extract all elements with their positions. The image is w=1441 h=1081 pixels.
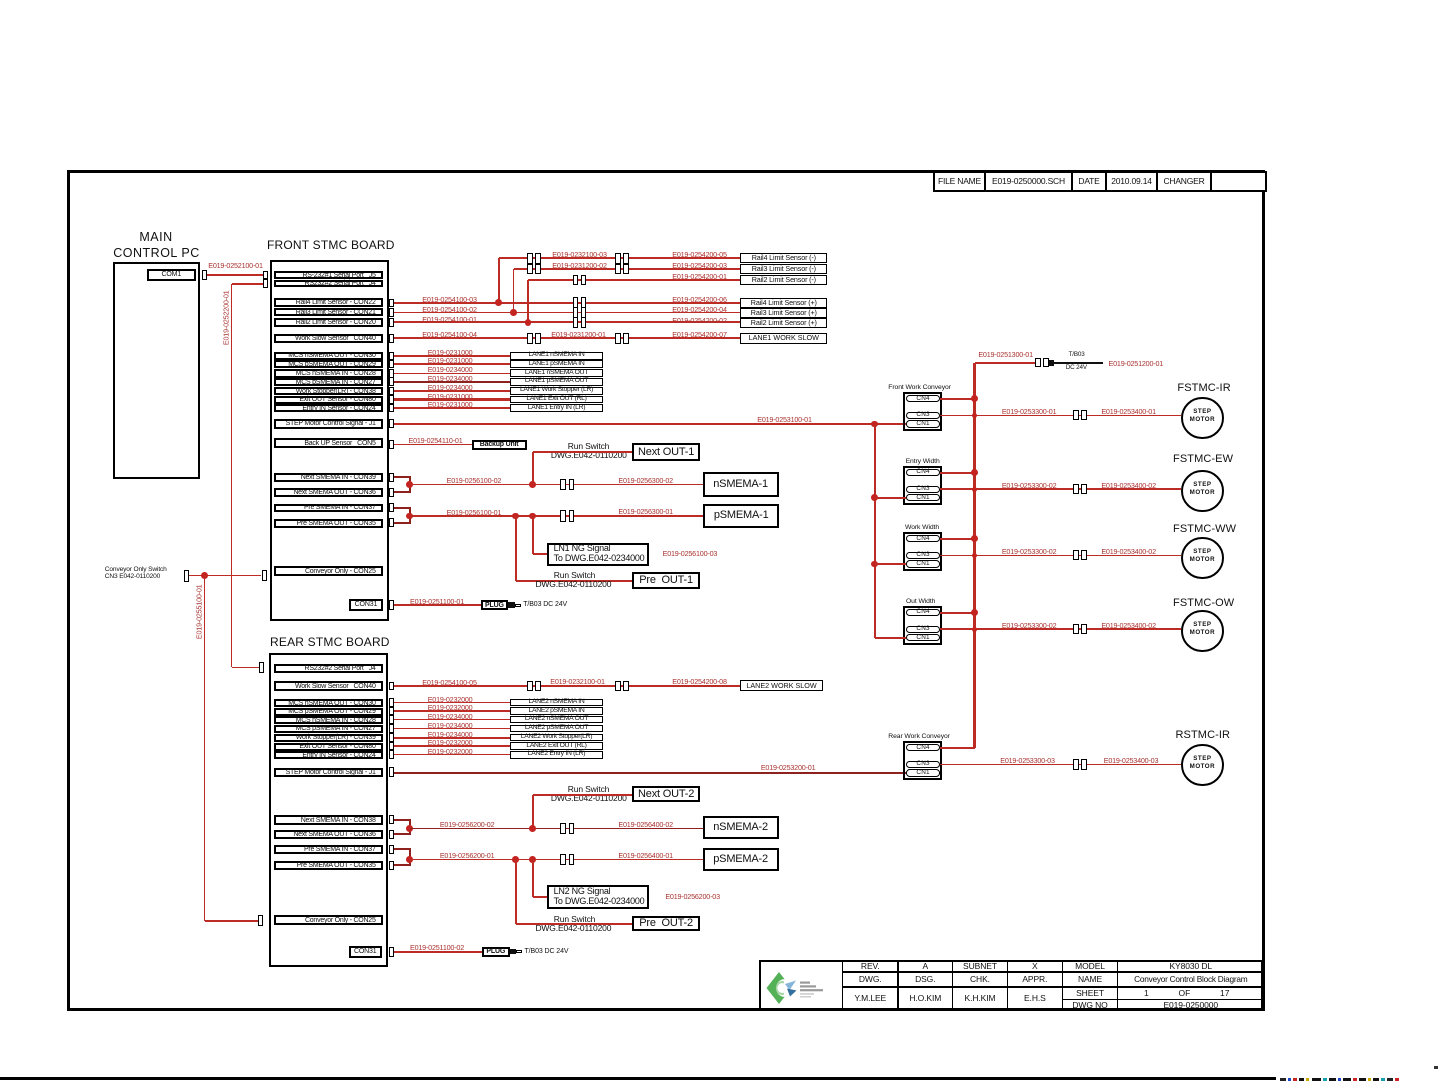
label run switch next1 (566, 442, 611, 451)
net label E019-0256200-03 (665, 893, 721, 901)
stub CON39 (394, 476, 411, 478)
wire entry CN1 (875, 497, 906, 499)
backup unit box (472, 440, 527, 450)
box pSMEMA-2 (703, 848, 779, 871)
wire E019-0232000 lane2 row 6 (394, 754, 510, 756)
connector pair on rail2 plus (573, 317, 579, 328)
net label E019-0234000 lane2 row 2 (427, 713, 474, 721)
label T/B03 DC 24V front (523, 601, 567, 608)
junction to ln1 (529, 513, 536, 520)
wire E019-0234000 lane2 row 4 (394, 737, 510, 739)
title block cell X (1007, 960, 1064, 973)
connector front smema row 1 (389, 360, 394, 369)
main control pc box (113, 262, 200, 479)
vertical bus E019-0255100-01 (204, 576, 206, 921)
title block cell APPR. (1007, 971, 1064, 988)
net label E019-0251200-01 (1107, 360, 1164, 368)
bracket pre smema (409, 508, 411, 523)
net label E019-0234000 lane2 row 4 (427, 731, 474, 739)
connector pair rear slow 2 (615, 681, 621, 692)
net label E019-0254200-01 (671, 273, 728, 281)
title block cell MODEL (1062, 960, 1119, 973)
front board row Back UP Sensor CON5 (274, 438, 383, 448)
label conveyor only switch line2 (105, 573, 160, 580)
label T/B03 DC 24V rear (525, 948, 569, 955)
io box LANE1 pSMEMA OUT (510, 378, 603, 386)
label REAR STMC BOARD (270, 636, 390, 649)
title block cell Y.M.LEE (842, 986, 899, 1011)
title block cell CHK. (952, 971, 1008, 988)
io box LANE2 nSMEMA IN (510, 699, 603, 707)
front board row MCS nSMEMA IN - CON28 (274, 369, 383, 377)
rear board row MCS nSMEMA OUT - CON30 (274, 699, 383, 707)
wire E019-0256200-01 (410, 859, 704, 861)
connector front CON36 (389, 488, 394, 497)
net label E019-0253300-02 out (1002, 622, 1057, 630)
title block cell SHEET (1062, 986, 1119, 1000)
front board row Rail3 Limit Sensor - CON21 (274, 308, 383, 317)
wire rear conveyor CN3 to motor (940, 764, 1181, 766)
io box LANE1 pSMEMA IN (510, 360, 603, 368)
junction out CN4 bus (971, 609, 978, 616)
connector rear CON38 (389, 815, 394, 824)
left vertical CN1 bus (874, 424, 876, 638)
junction entry CN1 left (871, 494, 878, 501)
net label E019-0254110-01 (407, 437, 464, 445)
title block cell Conveyor Control Block Diagram (1117, 971, 1265, 988)
net label E019-0253300-02 entry (1002, 482, 1057, 490)
sensor Rail3 Limit Sensor (-) (740, 264, 827, 275)
box Next OUT-2 (632, 786, 701, 802)
label Front Work Conveyor (888, 384, 951, 391)
wire work CN4 to bus (940, 538, 975, 540)
net label E019-0253300-02 work (1002, 548, 1057, 556)
bracket pre smema rear (409, 849, 411, 865)
entry width port CN4 (906, 469, 940, 476)
junction work CN4 bus (971, 535, 978, 542)
net label E019-0254100-05 (421, 679, 478, 687)
stub CON37 rear (394, 848, 411, 850)
net label E019-0232000 lane2 row 6 (427, 748, 474, 756)
connector CON21 at board edge (389, 308, 394, 317)
rear board row STEP Motor Control Signal - J1 (274, 768, 383, 777)
connector front smema row 2 (389, 369, 394, 378)
wire E019-0254100-01 (394, 321, 741, 323)
net label E019-0234000 row 2 (427, 366, 474, 374)
title header cell blank (1210, 171, 1267, 192)
wire E019-0231000 lane1 row 1 (394, 363, 510, 365)
junction entry CN4 bus (971, 469, 978, 476)
stub CON37 (394, 507, 411, 509)
junction conveyor only (201, 572, 208, 579)
label MOTOR of FSTMC-WW (1182, 557, 1222, 564)
front board row MCS pSMEMA OUT - CON29 (274, 360, 383, 368)
wire into LN2 box (533, 896, 547, 898)
connector pair FSTMC-EW (1073, 484, 1079, 494)
wire entry CN3 to motor (940, 488, 1181, 490)
wire E019-0251100-01 (394, 604, 481, 606)
wire E019-0256100-02 (410, 484, 703, 486)
junction next out-1 (529, 481, 536, 488)
net label E019-0231000 row 6 (427, 401, 474, 409)
front board row Work Stopper(LR) - CON38 (274, 387, 383, 395)
rear board row Next SMEMA OUT - CON36 (274, 830, 383, 840)
net label E019-0251100-01 (409, 598, 465, 606)
wire E019-0256100-01 (410, 515, 704, 517)
title header cell E019-0250000.SCH (984, 171, 1073, 192)
connector rear CON40 (389, 682, 394, 691)
wire E019-0234000 lane1 row 2 (394, 373, 510, 375)
stub CON36 rear (394, 833, 411, 835)
plug box rear (482, 947, 510, 957)
box nSMEMA-1 (703, 472, 779, 497)
company logo (759, 960, 843, 1010)
net label E019-0254100-04 (421, 331, 478, 339)
label MOTOR of FSTMC-IR (1182, 417, 1222, 424)
wire FRONT J4 to left bus (232, 283, 264, 285)
net label E019-0231000 row 0 (427, 349, 474, 357)
label STEP of RSTMC-IR (1182, 756, 1222, 763)
connector rear smema row 1 (389, 707, 394, 716)
branch vertical rail4 minus (498, 258, 500, 303)
front board row STEP Motor Control Signal - J1 (274, 419, 383, 428)
step motor FSTMC-OW (1181, 610, 1223, 652)
wire to LN2 box (532, 860, 534, 897)
rear board row Pre SMEMA OUT - CON35 (274, 861, 383, 870)
junction front CN3 bus (972, 413, 977, 418)
rear work conveyor port CN3 (906, 761, 940, 768)
stub CON38 (394, 819, 411, 821)
wire E019-0254110-01 (394, 444, 472, 446)
label MOTOR of FSTMC-OW (1182, 630, 1222, 637)
label conveyor only switch line1 (105, 566, 167, 573)
plug box front (481, 600, 509, 610)
net label E019-0254100-01 (421, 316, 478, 324)
sensor Rail2 Limit Sensor (+) (740, 318, 827, 328)
junction rail4 (495, 299, 502, 306)
bottom page edge line (0, 1077, 1276, 1080)
front board row Pre SMEMA IN - CON37 (274, 504, 383, 513)
wire E019-0232000 lane2 row 1 (394, 710, 510, 712)
net label E019-0253200-01 (760, 764, 817, 772)
label dwg next1 (551, 451, 627, 460)
connector CON40 at board edge (389, 334, 394, 343)
io box LANE2 nSMEMA OUT (510, 716, 603, 724)
rear board row Next SMEMA IN - CON38 (274, 815, 383, 825)
rear board row MCS pSMEMA OUT - CON29 (274, 708, 383, 716)
net label E019-0234000 lane2 row 3 (427, 722, 474, 730)
connector rear CON35 (389, 861, 394, 870)
net label E019-0253400-02 entry (1101, 482, 1157, 490)
label T/B03 top (1066, 352, 1087, 359)
front board row Entry IN Sensor - CON24 (274, 404, 383, 412)
title block cell DWG NO (1062, 999, 1119, 1012)
wire E019-0254100-05 (394, 685, 741, 687)
front board row RS232#2 Serial Port J4 (274, 280, 383, 288)
junction next smema rear (406, 825, 413, 832)
connector CON20 at board edge (389, 318, 394, 327)
stub CON36 (394, 491, 411, 493)
wire work CN1 (875, 563, 906, 565)
wire out CN3 to motor (940, 628, 1181, 630)
rear work conveyor box (903, 741, 942, 780)
connector front smema row 0 (389, 352, 394, 361)
label run switch pre2 (552, 915, 597, 924)
connector rear J4 edge (259, 662, 264, 673)
net label E019-0232100-01 (549, 678, 606, 686)
connector front J1 (389, 419, 394, 428)
wire E019-0234000 lane1 row 4 (394, 390, 510, 392)
title block cell SUBNET (952, 960, 1008, 973)
connector front CON35 (389, 518, 394, 527)
connector front CON39 (389, 473, 394, 482)
wire next out-2 horizontal (533, 794, 632, 796)
backbone bus vertical (973, 363, 976, 748)
front board row Conveyor Only - CON25 (274, 566, 383, 576)
connector rear smema row 2 (389, 715, 394, 724)
connector front smema row 4 (389, 387, 394, 396)
io box LANE2 pSMEMA OUT (510, 725, 603, 733)
connector front CON37 (389, 503, 394, 512)
connector rear smema row 3 (389, 724, 394, 733)
net label E019-0231200-02 (551, 262, 608, 270)
title block cell KY8030 DL (1117, 960, 1265, 973)
terminal T/B03 plug symbol (1049, 360, 1054, 365)
bottom right artifact marks (1280, 1078, 1286, 1081)
net label E019-0256100-03 (662, 550, 718, 558)
connector pair on rail3 plus (573, 307, 579, 318)
wire pre out-2 horizontal (516, 923, 632, 925)
label run switch pre1 (552, 571, 597, 580)
connector pair nsmema1 (560, 479, 566, 490)
sensor Rail4 Limit Sensor (-) (740, 253, 827, 264)
io box LANE1 Work Stopper (LR) (510, 387, 603, 395)
front board row Next SMEMA OUT - CON36 (274, 488, 383, 497)
connector front CON5 (389, 440, 394, 449)
rear work conveyor port CN1 (906, 769, 940, 776)
net label E019-0231000 row 1 (427, 357, 474, 365)
connector pair on rail3 minus (527, 264, 533, 275)
net label E019-0254200-03 (671, 262, 728, 270)
plug symbol front (508, 602, 515, 607)
front board row Next SMEMA IN - CON39 (274, 473, 383, 482)
junction rail3 (510, 309, 517, 316)
label FSTMC-EW (1173, 454, 1231, 466)
connector rear smema row 5 (389, 742, 394, 751)
sensor Rail4 Limit Sensor (+) (740, 298, 827, 308)
io box LANE2 Exit OUT (RL) (510, 742, 603, 750)
connector pair RSTMC-IR (1073, 759, 1079, 769)
wire E019-0231000 lane1 row 6 (394, 407, 510, 409)
io box LANE2 Work Stopper(LR) (510, 734, 603, 742)
net label E019-0254200-06 (671, 296, 728, 304)
title block cell DWG. (842, 971, 899, 988)
vertical bus E019-0252200-01 (231, 284, 233, 667)
net label E019-0254100-02 (421, 306, 478, 314)
label run switch next2 (566, 785, 611, 794)
title block cell SHEET value 1 OF 17 (1117, 986, 1265, 1000)
front work conveyor box (903, 392, 942, 431)
title block cell K.H.KIM (952, 986, 1008, 1011)
wire conveyor only to front CON25 (189, 575, 262, 577)
work width port CN4 (906, 535, 940, 542)
wire to LN1 box (532, 516, 534, 554)
title block cell REV. (842, 960, 899, 973)
wire work CN3 to motor (940, 555, 1181, 557)
wire E019-0234000 lane1 row 3 (394, 381, 510, 383)
wire E019-0254100-04 (394, 337, 741, 339)
wire out CN1 (875, 637, 906, 639)
title header cell CHANGER (1156, 171, 1212, 192)
wire next out-2 vertical (532, 795, 534, 829)
io box LANE2 Entry IN (LR) (510, 751, 603, 759)
wire next out-1 horizontal (533, 451, 632, 453)
front board row MCS pSMEMA IN - CON27 (274, 378, 383, 386)
rear board row Work Stopper(LR) - CON39 (274, 734, 383, 742)
connector pair on rail4 minus (527, 253, 533, 264)
junction work CN3 bus (972, 553, 977, 558)
rear stmc board outline (269, 653, 388, 967)
out width port CN4 (906, 609, 940, 616)
label STEP of FSTMC-OW (1182, 622, 1222, 629)
label FRONT STMC BOARD (267, 239, 395, 252)
connector front smema row 3 (389, 377, 394, 386)
connector pair psmema1 (560, 510, 566, 521)
title block cell A (897, 960, 953, 973)
wire Rail2 limit minus row (528, 279, 740, 281)
connector front CON25 edge (262, 570, 267, 582)
outer drawing border frame (67, 170, 1265, 1011)
junction pre smema rear (406, 856, 413, 863)
connector rear CON31 (389, 947, 394, 957)
title block cell E.H.S (1007, 986, 1064, 1011)
rear board row MCS pSMEMA IN - CON27 (274, 725, 383, 733)
wire Rail3 limit minus row (514, 268, 741, 270)
port COM1 (147, 269, 196, 281)
title header cell FILE NAME (933, 171, 986, 192)
box nSMEMA-2 (703, 816, 779, 840)
work width port CN1 (906, 560, 940, 567)
net label E019-0253400-02 out (1101, 622, 1157, 630)
net label E019-0253400-02 work (1101, 548, 1157, 556)
front board row Work Slow Sensor CON40 (274, 334, 383, 343)
connector rear J1 (389, 767, 394, 776)
title header cell DATE (1071, 171, 1107, 192)
wire into LN1 box (533, 553, 547, 555)
net label E019-0232000 lane2 row 0 (427, 696, 474, 704)
connector pair on rail2 minus (573, 275, 579, 286)
box Pre OUT-2 (632, 916, 701, 931)
label Work Width (905, 524, 939, 531)
label dwg pre1 (535, 580, 611, 589)
front board row Rail4 Limit Sensor - CON22 (274, 298, 383, 307)
note box LN1 NG Signal (547, 543, 649, 567)
note box LN2 NG Signal (547, 885, 649, 909)
rear board row Entry IN Sensor - CON24 (274, 751, 383, 759)
label Out Width (906, 598, 935, 605)
net label E019-0254100-03 (421, 296, 478, 304)
title header cell 2010.09.14 (1105, 171, 1158, 192)
label Rear Work Conveyor (888, 733, 950, 740)
label dwg pre2 (535, 924, 611, 933)
wire out CN4 to bus (940, 612, 975, 614)
junction out CN3 bus (972, 627, 977, 632)
io box LANE1 nSMEMA OUT (510, 369, 603, 377)
label MOTOR of RSTMC-IR (1182, 764, 1222, 771)
rotated net label E019-0255100-01 (196, 583, 204, 640)
front board row MCS nSMEMA OUT - CON30 (274, 352, 383, 361)
label STEP of FSTMC-EW (1182, 482, 1222, 489)
rear board row MCS nSMEMA IN - CON28 (274, 716, 383, 724)
junction front CN4 bus (971, 395, 978, 402)
label DC 24V bottom (1064, 365, 1089, 372)
net label E019-0232100-03 (551, 251, 608, 259)
wire to rear CON25 (205, 920, 258, 922)
wire E019-0234000 lane2 row 2 (394, 719, 510, 721)
io box LANE1 Entry IN (LR) (510, 404, 603, 412)
wire E019-0232000 lane2 row 0 (394, 702, 510, 704)
connector pair FSTMC-WW (1073, 550, 1079, 560)
net label E019-0253300-01 (1002, 408, 1057, 416)
label FSTMC-OW (1173, 598, 1232, 610)
wire rear J1 to rear conveyor CN1 (394, 772, 906, 774)
net label E019-0256300-02 (618, 477, 674, 485)
connector conveyor only switch (184, 570, 189, 582)
wire entry CN4 to bus (940, 472, 975, 474)
front board row Exit OUT Sensor - CON80 (274, 396, 383, 404)
junction pre smema bracket (406, 513, 413, 520)
wire rear J4 horizontal (232, 667, 259, 669)
sensor Rail3 Limit Sensor (+) (740, 308, 827, 318)
step motor FSTMC-IR (1181, 397, 1223, 439)
rear board row RS232#2 Serial Port J4 (274, 664, 383, 674)
wire E019-0251100-02 (394, 951, 482, 953)
connector rear smema row 6 (389, 750, 394, 759)
label dwg next2 (551, 794, 627, 803)
connector pair nsmema2 (560, 823, 566, 834)
wire front J1 to conveyor CN1 (394, 423, 906, 425)
label Entry Width (906, 458, 940, 465)
connector rear CON37 (389, 845, 394, 854)
connector pair FSTMC-OW (1073, 624, 1079, 634)
net label E019-0256200-01 (439, 852, 496, 860)
title block frame (759, 960, 1264, 1010)
junction to pre out-2 (512, 856, 519, 863)
net label E019-0234000 row 3 (427, 375, 474, 383)
wire rear conveyor CN4 to bus (940, 747, 975, 749)
wire E019-0254100-02 (394, 312, 741, 313)
net label E019-0256300-01 (618, 508, 674, 516)
front board port CON31 (349, 599, 383, 611)
net label E019-0253100-01 (756, 416, 813, 424)
net label E019-0231000 row 5 (427, 393, 474, 401)
connector on COM1 (202, 270, 207, 280)
net label E019-0232000 lane2 row 5 (427, 739, 474, 747)
net label E019-0252100-01 (208, 262, 264, 270)
net label E019-0234000 row 4 (427, 384, 474, 392)
wire front conveyor CN4 to bus (940, 398, 975, 400)
bracket next smema rear (409, 820, 411, 835)
front stmc board outline (270, 260, 389, 621)
entry width box (903, 466, 942, 505)
sensor LANE1 WORK SLOW (740, 333, 827, 344)
out width port CN3 (906, 626, 940, 633)
wire front conveyor CN3 to motor (940, 415, 1181, 417)
connector CON22 at board edge (389, 299, 394, 308)
rear board row Exit OUT Sensor - CON80 (274, 743, 383, 751)
box pSMEMA-1 (703, 504, 779, 528)
net label E019-0251100-02 (409, 944, 465, 952)
